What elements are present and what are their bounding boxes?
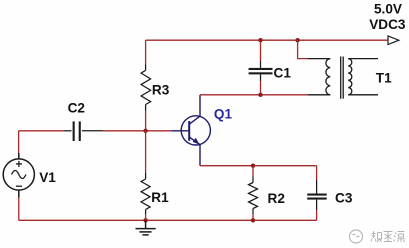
node R2 bottom junction: [251, 218, 255, 222]
source V1: [3, 153, 34, 198]
node C1 top junction: [258, 38, 262, 42]
node T1 tap junction: [295, 38, 299, 42]
transformer T1: [308, 57, 379, 99]
resistor R1: [141, 173, 150, 214]
wire T1 primary bottom branch: [307, 94, 310, 96]
wire emitter rail: [200, 165, 317, 167]
wire C1 bottom branch: [260, 81, 262, 95]
wire C2 to base: [103, 130, 172, 132]
node base junction: [143, 129, 147, 133]
wire R1 top branch: [145, 131, 147, 173]
power arrow VDC3: [388, 36, 399, 45]
wire T1 primary top branch: [298, 40, 308, 58]
wire C3 top branch: [316, 166, 318, 180]
wire bottom ground rail: [19, 219, 317, 221]
svg-text:C3: C3: [335, 191, 353, 206]
svg-text:5.0V: 5.0V: [374, 1, 402, 16]
svg-text:C2: C2: [68, 101, 86, 116]
svg-text:R2: R2: [268, 191, 286, 206]
node R2 top junction: [251, 164, 255, 168]
ground: [136, 220, 156, 235]
wire V1 to bottom rail: [18, 198, 20, 221]
wire left rail down to V1: [18, 131, 20, 153]
resistor R3: [141, 65, 151, 111]
wire top supply rail: [146, 39, 388, 41]
svg-text:VDC3: VDC3: [369, 17, 406, 32]
wire C1 bottom to transformer: [261, 94, 308, 96]
node R1 bottom junction: [143, 218, 147, 222]
capacitor C1: [249, 61, 273, 81]
svg-text:V1: V1: [39, 170, 56, 185]
wire R3 to base junction: [145, 111, 147, 131]
wire R3 top branch: [145, 40, 147, 64]
resistor R2: [249, 177, 258, 215]
wire R2 top branch: [252, 166, 254, 177]
transistor Q1: [171, 95, 210, 166]
svg-text:C1: C1: [274, 66, 292, 81]
wire C1 top branch: [260, 40, 262, 61]
capacitor C2: [64, 121, 103, 141]
svg-text:Q1: Q1: [214, 106, 233, 121]
wire R1 to bottom rail: [145, 214, 147, 220]
wire C3 bottom branch: [316, 210, 318, 220]
svg-text:R3: R3: [152, 82, 170, 97]
watermark text (频率源 drawn as vector strokes): [371, 231, 405, 242]
capacitor C3: [307, 180, 327, 210]
wire R2 bottom branch: [252, 214, 254, 220]
svg-text:T1: T1: [376, 70, 392, 85]
wire collector rail to C1 bottom: [200, 94, 261, 96]
svg-text:R1: R1: [151, 190, 169, 205]
wire base rail left segment: [19, 130, 64, 132]
node C1 bottom junction: [258, 93, 262, 97]
watermark logo: [350, 230, 363, 243]
